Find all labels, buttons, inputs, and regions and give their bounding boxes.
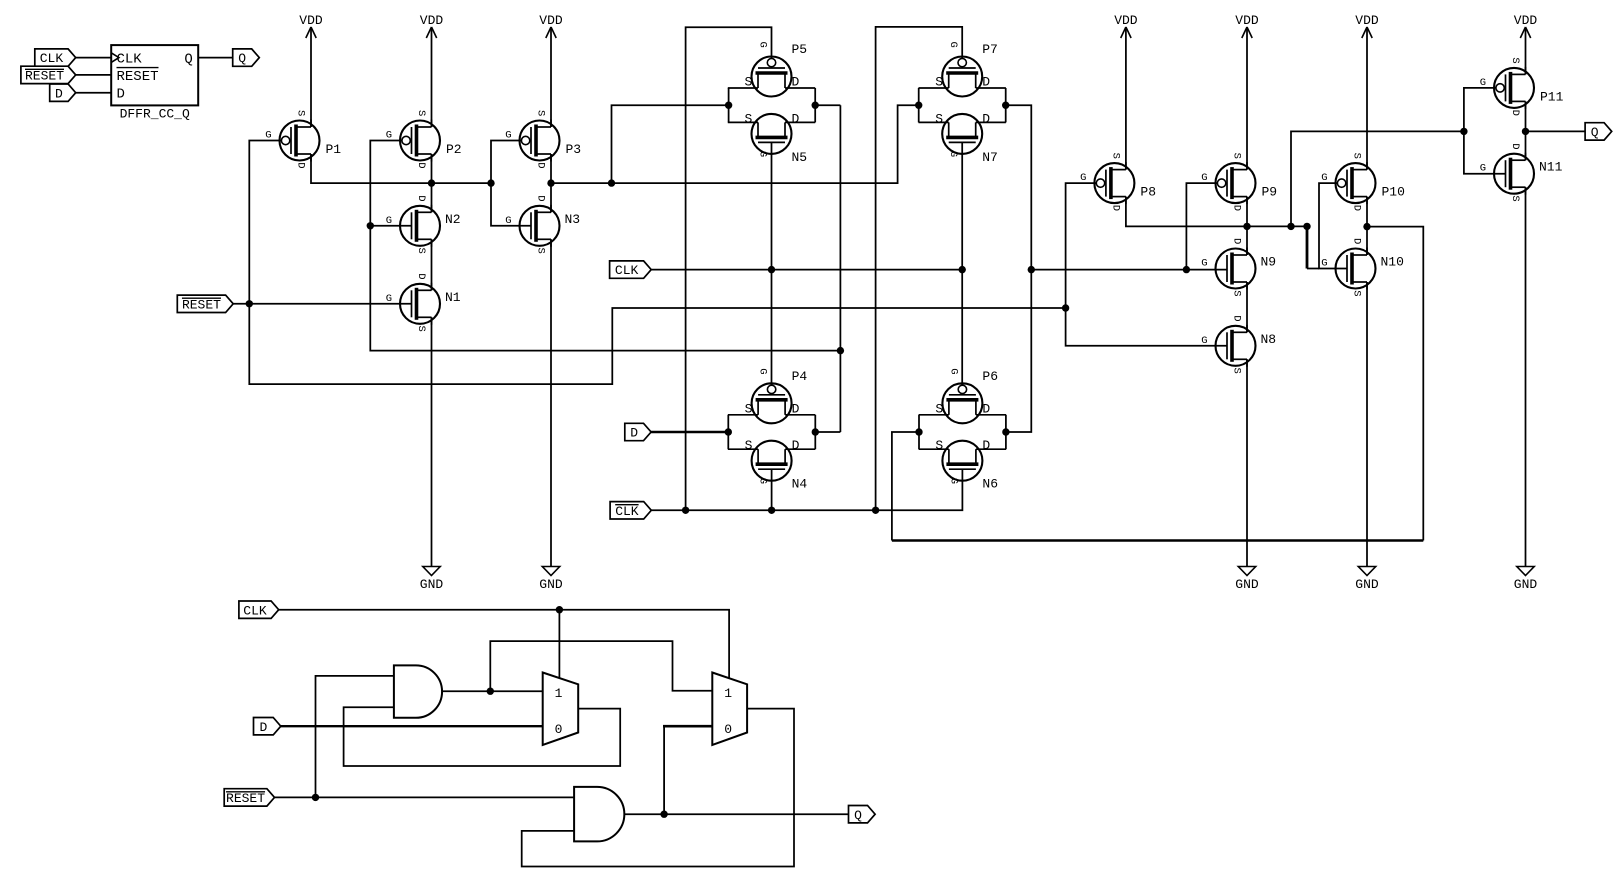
net flag RESET (symbol) [21, 66, 76, 83]
wire RESETB to AND2 input [275, 796, 575, 798]
svg-text:RESET: RESET [226, 791, 265, 806]
wire RESETB to P1 gate [249, 141, 1065, 385]
net flag RESETB [177, 295, 233, 312]
svg-text:D: D [1109, 205, 1121, 211]
wire P9/N9 drain stub [1246, 197, 1248, 255]
svg-text:S: S [295, 110, 307, 116]
svg-text:CLK: CLK [615, 263, 639, 278]
wire VDD to P9 source [1246, 27, 1248, 170]
svg-text:G: G [947, 478, 959, 484]
svg-text:P9: P9 [1262, 185, 1278, 200]
power VDD 2 [420, 13, 444, 38]
wire P3 gate link [491, 141, 531, 226]
svg-text:D: D [55, 86, 63, 101]
wire mux2 output feedback [522, 709, 794, 867]
AND gate G1 [394, 665, 442, 717]
svg-text:VDD: VDD [1514, 13, 1538, 28]
svg-text:N11: N11 [1539, 160, 1563, 175]
svg-text:1: 1 [724, 686, 732, 701]
wire Q riser to output inverter gates [1291, 131, 1464, 226]
svg-text:S: S [1509, 57, 1521, 63]
wire U1 Q pin [198, 57, 233, 59]
junction CLKB at P7 gate riser [872, 507, 879, 514]
svg-text:G: G [757, 42, 769, 48]
junction CLK at N5/P4 gates [768, 266, 775, 273]
transistor N5 [728, 111, 815, 164]
junction slave output at P10/N10 gate riser [1303, 223, 1310, 230]
wire U1 CLK pin [76, 57, 112, 59]
svg-text:CLK: CLK [243, 603, 267, 618]
wire Q feedback to mux2 input 0 [663, 725, 712, 728]
wire AND2 output to Q flag [624, 813, 848, 815]
wire RESETB P8/N8 gate riser [1066, 183, 1228, 346]
wire VDD to P1 source [310, 27, 312, 127]
junction TG3 right junction [812, 428, 819, 435]
wire feedback inverter output run [892, 539, 1423, 541]
wire P9 gate riser [1186, 183, 1217, 270]
svg-text:D: D [792, 401, 800, 416]
wire node Y P2 drain stub [431, 154, 433, 212]
svg-text:S: S [535, 110, 547, 116]
svg-text:Q: Q [238, 51, 246, 66]
svg-text:D: D [982, 111, 990, 126]
svg-text:G: G [1201, 172, 1207, 184]
mux M1 [543, 673, 579, 746]
svg-text:D: D [415, 162, 427, 168]
svg-text:G: G [757, 478, 769, 484]
wire TG2 left terminal [918, 88, 920, 122]
svg-text:N6: N6 [982, 477, 998, 492]
transistor N1 [386, 273, 461, 332]
AND gate G2 [574, 787, 624, 842]
mux M2 [712, 673, 747, 746]
net flag CLKB [610, 502, 651, 519]
junction node Z at P3/N3 drains [547, 179, 554, 186]
wire AND1 output to mux1 input 1 [442, 690, 543, 692]
svg-text:VDD: VDD [539, 13, 563, 28]
svg-text:VDD: VDD [420, 13, 444, 28]
svg-text:GND: GND [1235, 577, 1259, 592]
wire TG3 left terminal [727, 415, 729, 449]
ground GND 1 [420, 567, 444, 593]
svg-text:G: G [1480, 163, 1486, 175]
svg-text:N7: N7 [982, 150, 998, 165]
wire AND1 output to mux2 input 1 [490, 641, 712, 691]
svg-text:1: 1 [555, 686, 563, 701]
svg-text:P8: P8 [1140, 185, 1156, 200]
svg-text:N2: N2 [445, 212, 461, 227]
svg-text:D: D [982, 438, 990, 453]
svg-text:D: D [1231, 315, 1243, 321]
transistor P1 [265, 110, 341, 169]
wire N2 source to N1 drain [431, 239, 433, 290]
svg-text:D: D [792, 111, 800, 126]
wire node Y P1 drain to P3/N3 gates [311, 154, 491, 183]
svg-text:N9: N9 [1261, 255, 1277, 270]
wire TG4 left terminal [918, 415, 920, 449]
wire TG3 right terminal [814, 415, 816, 449]
transistor P6 [919, 368, 1006, 423]
svg-text:S: S [535, 248, 547, 254]
ground GND 4 [1355, 567, 1379, 593]
transistor N9 [1201, 238, 1276, 297]
svg-text:D: D [1231, 238, 1243, 244]
svg-text:P4: P4 [792, 369, 808, 384]
svg-text:S: S [745, 401, 753, 416]
wire Q output to flag [1526, 130, 1586, 132]
junction slave output at P9/N9 drains [1243, 223, 1250, 230]
wire TG3 right stub [815, 431, 840, 433]
junction TG1 right junction [812, 102, 819, 109]
wire N11 source to GND [1525, 187, 1527, 566]
wire CLKB flag to N6 gate [651, 469, 962, 510]
transistor N7 [919, 111, 1006, 164]
junction node Y at P2/N2 drains [428, 179, 435, 186]
power VDD 1 [299, 13, 323, 38]
junction slave input at P9 gate branch [1183, 266, 1190, 273]
svg-text:D: D [535, 195, 547, 201]
wire N4 gate riser [771, 469, 773, 510]
transistor P5 [728, 42, 815, 97]
svg-text:Q: Q [1591, 125, 1599, 140]
transistor N10 [1321, 238, 1404, 297]
transistor P7 [919, 42, 1006, 97]
junction RESETB at P1 gate branch [246, 300, 253, 307]
transistor P11 [1480, 57, 1564, 116]
wire CLK to mux selects [279, 610, 729, 678]
ground GND 2 [539, 567, 563, 593]
wire U1 RESET pin [76, 74, 112, 76]
wire node X riser TG1/TG3 [839, 105, 841, 432]
svg-text:D: D [792, 75, 800, 90]
svg-text:G: G [757, 368, 769, 374]
svg-text:N8: N8 [1261, 332, 1277, 347]
svg-text:G: G [386, 215, 392, 227]
power VDD 4 [1114, 13, 1138, 38]
junction TG1 left junction [725, 102, 732, 109]
net flag Q [1585, 123, 1612, 140]
svg-text:G: G [386, 293, 392, 305]
svg-text:0: 0 [555, 722, 563, 737]
wire mux1 output feedback [344, 707, 621, 766]
svg-text:Q: Q [854, 808, 862, 823]
svg-text:G: G [386, 130, 392, 142]
svg-text:G: G [265, 130, 271, 142]
svg-text:S: S [415, 248, 427, 254]
net flag RESETB (gate level) [224, 789, 274, 806]
svg-text:D: D [415, 273, 427, 279]
junction CLK at N7/P6 gates [959, 266, 966, 273]
svg-text:S: S [745, 111, 753, 126]
svg-text:S: S [935, 401, 943, 416]
wire node Z P3/N3 drains to TG2 left [550, 154, 552, 212]
junction node X at TG riser [837, 347, 844, 354]
svg-text:GND: GND [1355, 577, 1379, 592]
svg-text:VDD: VDD [1114, 13, 1138, 28]
svg-text:N3: N3 [565, 212, 581, 227]
svg-text:S: S [935, 111, 943, 126]
junction TG3 left junction [725, 428, 732, 435]
wire node X P2/N2 gate riser [370, 141, 840, 351]
wire Q feedback riser [663, 726, 665, 813]
svg-text:P5: P5 [792, 42, 808, 57]
wire feedback riser to P10/N10 drains [1367, 227, 1423, 541]
junction TG2 left junction [915, 102, 922, 109]
net flag Q (symbol) [233, 49, 260, 66]
svg-text:S: S [1231, 153, 1243, 159]
junction TG2 right junction [1002, 102, 1009, 109]
svg-text:D: D [117, 87, 125, 103]
wire node Z to TG1 left and TG2 left [551, 105, 919, 183]
svg-text:VDD: VDD [1235, 13, 1259, 28]
transistor N3 [505, 195, 580, 254]
junction output inverter gate junction [1460, 128, 1467, 135]
svg-text:D: D [1351, 205, 1363, 211]
svg-text:G: G [1321, 172, 1327, 184]
svg-text:D: D [535, 162, 547, 168]
junction AND2 output branch [660, 811, 667, 818]
wire P7 gate riser [876, 27, 963, 510]
net flag D [625, 423, 651, 440]
wire slave output P8 drain run [1126, 197, 1307, 227]
svg-text:CLK: CLK [117, 51, 143, 67]
svg-text:RESET: RESET [25, 69, 64, 84]
svg-text:S: S [1509, 195, 1521, 201]
svg-text:DFFR_CC_Q: DFFR_CC_Q [120, 107, 190, 122]
wire P11/N11 gate tie [1464, 88, 1506, 174]
ground GND 5 [1514, 567, 1538, 593]
wire TG2 right to slave input riser [1006, 105, 1032, 432]
wire P10/N10 gate tie [1306, 226, 1309, 268]
transistor N4 [728, 438, 815, 492]
svg-text:D: D [1509, 143, 1521, 149]
svg-text:S: S [935, 438, 943, 453]
svg-text:G: G [1201, 258, 1207, 270]
junction RESETB at AND1 branch [312, 794, 319, 801]
wire D flag to TG3 left [651, 431, 728, 433]
svg-text:S: S [745, 438, 753, 453]
svg-text:0: 0 [724, 722, 732, 737]
wire N10 gate stub [1307, 268, 1319, 270]
svg-text:G: G [505, 130, 511, 142]
svg-text:Q: Q [184, 51, 192, 67]
wire N1 source to GND [431, 317, 433, 566]
svg-text:D: D [259, 720, 267, 735]
wire VDD to P10 source [1366, 27, 1368, 170]
wire U1 D pin [76, 92, 112, 94]
junction RESETB at P8 gate branch [1062, 304, 1069, 311]
svg-text:S: S [1109, 153, 1121, 159]
svg-text:S: S [745, 75, 753, 90]
svg-text:P3: P3 [566, 142, 582, 157]
junction CLKB at P5 gate riser [682, 507, 689, 514]
net flag CLK [610, 261, 652, 278]
transistor N8 [1201, 315, 1276, 374]
junction node Z at TG1 branch [608, 179, 615, 186]
power VDD 5 [1235, 13, 1259, 38]
junction AND1 output branch [487, 688, 494, 695]
net flag D (symbol) [50, 84, 76, 101]
svg-text:N4: N4 [792, 477, 808, 492]
net flag CLK (symbol) [35, 49, 76, 66]
transistor P8 [1080, 153, 1156, 212]
svg-text:N1: N1 [445, 290, 461, 305]
svg-text:D: D [1509, 110, 1521, 116]
svg-text:CLK: CLK [40, 51, 64, 66]
transistor N2 [386, 195, 461, 254]
wire P10 drain stub [1366, 197, 1368, 255]
svg-text:GND: GND [420, 577, 444, 592]
power VDD 3 [539, 13, 563, 38]
junction CLK at mux1 select [556, 606, 563, 613]
svg-text:S: S [1231, 290, 1243, 296]
svg-text:D: D [630, 426, 638, 441]
junction slave input at CLK row [1028, 266, 1035, 273]
wire TG2 right terminal [1005, 88, 1007, 122]
flip-flop symbol U1 DFFR_CC_Q [111, 45, 198, 121]
wire D flag to mux1 input 0 [281, 725, 543, 727]
transistor P4 [728, 368, 815, 423]
wire N3 source to GND [550, 239, 552, 566]
svg-text:P2: P2 [446, 142, 462, 157]
svg-text:G: G [947, 151, 959, 157]
svg-text:P1: P1 [326, 142, 342, 157]
svg-text:P11: P11 [1540, 89, 1564, 104]
svg-text:D: D [295, 162, 307, 168]
svg-text:D: D [1351, 238, 1363, 244]
svg-text:S: S [415, 110, 427, 116]
svg-text:VDD: VDD [299, 13, 323, 28]
wire N7 gate / P6 gate riser [961, 142, 963, 385]
junction node Y at P3/N3 gate riser [487, 179, 494, 186]
svg-text:P6: P6 [982, 369, 998, 384]
junction Q output junction [1522, 128, 1529, 135]
junction TG4 right junction [1002, 428, 1009, 435]
wire VDD to P2 source [431, 27, 433, 127]
wire TG1 right terminal [814, 88, 816, 122]
svg-text:G: G [1321, 258, 1327, 270]
svg-text:G: G [757, 151, 769, 157]
svg-text:G: G [1201, 335, 1207, 347]
svg-text:S: S [1351, 290, 1363, 296]
net flag CLK (gate level) [239, 601, 279, 618]
wire TG1 left terminal [728, 88, 730, 122]
svg-text:CLK: CLK [615, 504, 639, 519]
net flag D (gate level) [254, 718, 281, 735]
svg-text:GND: GND [539, 577, 563, 592]
svg-text:D: D [982, 401, 990, 416]
svg-text:S: S [1351, 153, 1363, 159]
svg-text:G: G [1080, 172, 1086, 184]
wire TG4 right terminal [1005, 415, 1007, 449]
svg-text:S: S [415, 326, 427, 332]
junction node X at N2 gate [367, 222, 374, 229]
wire RESETB to AND1 input [316, 676, 394, 798]
wire N2 gate stub [370, 225, 411, 227]
svg-text:S: S [1231, 368, 1243, 374]
svg-text:GND: GND [1514, 577, 1538, 592]
svg-text:RESET: RESET [117, 69, 159, 85]
transistor N6 [919, 438, 1006, 492]
power VDD 6 [1355, 13, 1379, 38]
svg-text:N10: N10 [1381, 255, 1404, 270]
net flag Q (gate level) [849, 806, 876, 823]
svg-text:G: G [947, 42, 959, 48]
transistor P3 [505, 110, 581, 169]
wire TG4 left from feedback inverter [892, 432, 919, 541]
transistor N11 [1480, 143, 1563, 202]
junction TG4 left junction [915, 428, 922, 435]
wire slave input to N9 gate [1031, 269, 1227, 271]
svg-text:D: D [792, 438, 800, 453]
svg-text:D: D [415, 195, 427, 201]
svg-text:N5: N5 [792, 150, 808, 165]
power VDD 7 [1514, 13, 1538, 38]
wire P11/N11 drains to Q flag [1525, 101, 1527, 160]
transistor P10 [1321, 153, 1405, 212]
junction CLKB at N4 gate [768, 507, 775, 514]
svg-text:G: G [1480, 77, 1486, 89]
junction slave output at Q riser [1287, 223, 1294, 230]
svg-text:G: G [505, 215, 511, 227]
svg-text:D: D [1231, 205, 1243, 211]
wire P10 gate link [1319, 183, 1347, 268]
transistor P9 [1201, 153, 1277, 212]
wire VDD to P8 source [1125, 27, 1127, 170]
transistor P2 [386, 110, 462, 169]
svg-text:D: D [982, 75, 990, 90]
wire P5 gate riser [686, 27, 772, 510]
svg-text:G: G [947, 368, 959, 374]
ground GND 3 [1235, 567, 1259, 593]
wire RESETB flag to N1 gate [233, 303, 411, 305]
wire node Z branch to TG1 left [612, 105, 729, 183]
svg-text:S: S [935, 75, 943, 90]
svg-text:P10: P10 [1382, 185, 1405, 200]
wire N9 source to N8 drain [1246, 282, 1248, 332]
wire VDD to P11 source [1525, 27, 1527, 74]
wire CLK flag to gates [651, 269, 962, 271]
svg-text:P7: P7 [982, 42, 998, 57]
wire VDD to P3 source [550, 27, 552, 127]
wire N5 gate / P4 gate riser [771, 142, 773, 385]
wire N10 source to GND [1366, 282, 1368, 567]
wire N8 source to GND [1246, 359, 1248, 566]
svg-text:RESET: RESET [182, 297, 221, 312]
wire TG1 right stub [815, 104, 840, 106]
svg-text:VDD: VDD [1355, 13, 1379, 28]
junction P10/N10 drain junction [1363, 223, 1370, 230]
wire mux1 select riser [558, 610, 560, 678]
